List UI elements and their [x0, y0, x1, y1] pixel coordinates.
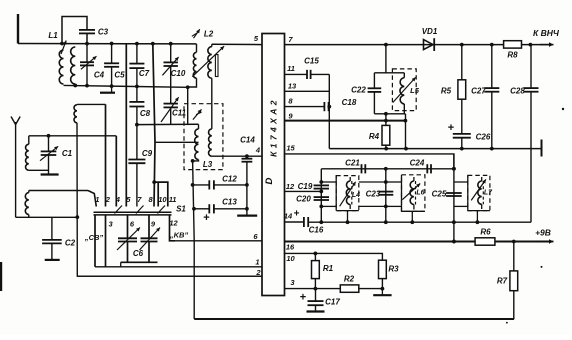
wire pin11 with C15: [285, 73, 308, 75]
svg-text:L3: L3: [203, 160, 213, 169]
svg-text:C5: C5: [114, 71, 125, 80]
magnetic antenna winding W2a (KV): [25, 193, 29, 215]
svg-text:C19: C19: [298, 182, 313, 191]
wire L1 top loop: [62, 17, 87, 44]
capacitor C8: [129, 101, 144, 103]
capacitor C17 electrolytic: [315, 289, 317, 302]
L4 shield dashed box: [336, 176, 359, 211]
wire taps V2 to L6: [386, 181, 402, 183]
node L3a bottom: [191, 159, 195, 163]
wire C21-C24 row: [321, 168, 454, 170]
ground under C14: [237, 215, 257, 217]
svg-text:C1: C1: [62, 149, 73, 158]
node AGC line junctions: [384, 147, 388, 151]
svg-text:R2: R2: [344, 275, 355, 284]
wire pin10: [285, 253, 383, 260]
svg-text:R7: R7: [497, 277, 508, 286]
capacitor C3: [79, 29, 95, 31]
svg-text:C7: C7: [139, 69, 150, 78]
wire pin8 with C18: [285, 106, 325, 108]
node pin7 junctions: [384, 43, 388, 47]
L4 tuning arrow: [340, 182, 356, 207]
node W1-C3 junction: [85, 42, 89, 46]
capacitor C9: [128, 159, 145, 161]
wire pin12: [285, 190, 322, 192]
node V3 junctions: [452, 167, 456, 171]
tank top wire: [374, 72, 404, 74]
wire taps V1 to L4: [321, 181, 336, 183]
inductor L6: [410, 181, 414, 205]
svg-text:C20: C20: [296, 195, 311, 204]
capacitor C19: [314, 184, 329, 186]
svg-text:„CB”: „CB”: [84, 233, 104, 242]
capacitor C1 variable: [48, 136, 50, 152]
wire pin2: [77, 275, 262, 277]
wire winding to C1 and contact4: [29, 135, 117, 137]
svg-text:L1: L1: [48, 31, 58, 40]
wire pin3: [285, 288, 383, 290]
svg-text:C12: C12: [222, 175, 237, 184]
wire pin16 +9V rail heavy: [285, 241, 550, 243]
C6 bottom bar: [121, 261, 158, 263]
op-amp IC D1 K174XA2 body: [262, 34, 285, 296]
svg-text:+: +: [300, 292, 306, 304]
switch S1 bar: [94, 211, 172, 213]
AGC line terminal bar: [541, 140, 543, 157]
capacitor C12: [193, 184, 210, 186]
L7 shield dashed box: [468, 175, 490, 210]
svg-text:„KB”: „KB”: [169, 231, 189, 240]
svg-text:C3: C3: [98, 28, 109, 37]
svg-text:C15: C15: [304, 57, 319, 66]
capacitor C10 variable: [170, 44, 172, 63]
resistor R8: [504, 41, 522, 48]
svg-text:L7: L7: [484, 190, 493, 197]
capacitor C13 electrolytic: [194, 208, 209, 210]
switch pivot line contact1-3 to wire1: [94, 215, 96, 267]
inductor L2 winding b: [211, 44, 213, 46]
L6 shield dashed box: [402, 175, 425, 212]
bottom rail: [194, 318, 514, 320]
svg-text:4: 4: [255, 146, 261, 155]
node C14 top: [245, 154, 249, 158]
antenna input stub: [17, 14, 19, 44]
svg-text:C25: C25: [432, 190, 447, 199]
svg-text:R8: R8: [507, 51, 518, 60]
wire vertical to IC pin2: [77, 123, 262, 276]
svg-text:C16: C16: [309, 226, 324, 235]
capacitor C2: [51, 217, 53, 240]
svg-text:C28: C28: [510, 87, 525, 96]
L2 adjust arrow: [194, 29, 200, 38]
node rail2 junctions: [73, 84, 77, 88]
svg-text:11: 11: [287, 64, 295, 73]
svg-text:16: 16: [286, 243, 295, 252]
capacitor C11 variable: [164, 103, 178, 105]
antenna down lead: [15, 132, 17, 218]
resistor R4: [382, 125, 390, 145]
svg-text:1: 1: [255, 258, 259, 267]
svg-text:12: 12: [169, 219, 178, 228]
resistor R2: [340, 285, 359, 292]
wire L2b down to L3b: [211, 78, 213, 129]
wire L4 bottom stub: [347, 211, 349, 223]
wire pin14 with C16: [285, 221, 304, 223]
svg-text:C26: C26: [476, 133, 491, 142]
switch pivot line 3: [105, 215, 107, 267]
node C1 top: [47, 134, 51, 138]
wire long vertical to bottom rail: [193, 161, 195, 319]
capacitor C18: [323, 102, 325, 111]
inductor L5: [403, 73, 405, 78]
wire coil top to contact2: [77, 103, 106, 105]
wire pin1: [95, 266, 262, 268]
svg-text:+: +: [448, 122, 454, 134]
wire AGC rail2: [64, 85, 188, 87]
svg-text:14: 14: [284, 212, 293, 221]
svg-text:C23: C23: [366, 190, 381, 199]
L6 tuning arrow: [402, 184, 420, 200]
resistor R7: [513, 242, 515, 271]
svg-text:10: 10: [158, 195, 167, 204]
node V2 junctions: [384, 180, 388, 184]
capacitor C16 electrolytic: [303, 217, 305, 227]
svg-text:C14: C14: [240, 136, 255, 145]
wire taps L4 to V2: [359, 181, 386, 183]
node pin9 junctions: [384, 119, 388, 123]
wire AGC line y148: [329, 148, 541, 150]
whip antenna symbol: [15, 122, 17, 132]
svg-text:C2: C2: [65, 239, 76, 248]
svg-text:R4: R4: [369, 132, 380, 141]
capacitor C7: [136, 44, 138, 64]
svg-text:C22: C22: [351, 86, 366, 95]
ground under C17: [307, 310, 325, 312]
svg-text:C10: C10: [171, 69, 186, 78]
svg-text:VD1: VD1: [422, 27, 438, 36]
svg-text:+: +: [294, 209, 300, 220]
svg-text:12: 12: [286, 182, 295, 191]
svg-text:L2: L2: [204, 30, 214, 39]
svg-text:C18: C18: [342, 98, 357, 107]
svg-text:+: +: [203, 212, 209, 224]
wire vertical C15-C18 link: [328, 74, 330, 148]
inductor L2 winding a: [196, 44, 198, 52]
svg-text:L6: L6: [416, 190, 424, 197]
wire pin9 heavy: [285, 120, 406, 122]
capacitor C15: [306, 70, 308, 79]
wire tank to R4: [385, 114, 387, 126]
capacitor C24: [426, 164, 428, 173]
inductor L3 winding a: [198, 124, 200, 129]
switch pivot line 12 to wire6: [170, 215, 176, 241]
wire contact8 column from W1: [153, 44, 155, 207]
ground under C1: [41, 173, 59, 175]
capacitor C14: [242, 158, 253, 160]
node +9V rail junctions: [452, 240, 456, 244]
wire jog to L3 top: [137, 123, 199, 125]
svg-text:C4: C4: [94, 71, 105, 80]
wire contact4 column: [115, 136, 117, 207]
svg-text:1: 1: [95, 195, 99, 204]
svg-text:2: 2: [255, 268, 261, 277]
wire W1 top rail left segment: [18, 43, 197, 45]
wire tap to L3 winding: [155, 141, 199, 143]
scan edge artifact: [0, 262, 2, 291]
svg-text:C24: C24: [410, 159, 425, 168]
node R1 top: [314, 252, 318, 256]
svg-text:L5: L5: [410, 86, 420, 95]
svg-text:К174ХА2: К174ХА2: [269, 97, 279, 157]
wire antenna bottom: [16, 216, 78, 218]
svg-text:4: 4: [115, 195, 121, 204]
svg-text:К ВНЧ: К ВНЧ: [533, 28, 560, 38]
svg-text:D: D: [264, 177, 275, 184]
wire column V3: [453, 154, 455, 242]
capacitor C21: [361, 164, 363, 173]
wire taps V3 to L7: [454, 181, 468, 183]
switch wiper diagonals: [115, 206, 123, 214]
switch pivot line 9 / C6 section b: [148, 215, 150, 238]
inductor L4: [346, 181, 350, 205]
svg-text:C17: C17: [325, 298, 340, 307]
wire contact1 lead: [88, 191, 96, 207]
node W1-contact8 junction: [151, 42, 155, 46]
ground under C2: [45, 259, 60, 261]
wire from rail2 down to L3: [187, 87, 189, 124]
winding W1a bottom wire: [29, 169, 49, 171]
node pin3 junctions: [314, 287, 318, 291]
svg-text:+9В: +9В: [535, 228, 551, 238]
inductor L1 winding b: [71, 47, 76, 84]
inductor L1 winding a: [59, 50, 63, 84]
wire L7 bottom stub: [476, 211, 478, 223]
capacitor C6 section b variable: [141, 237, 158, 239]
wire pin7 output rail: [285, 44, 550, 46]
L3 shield dashed box: [184, 104, 223, 170]
L5 shield dashed box: [392, 69, 416, 111]
node C18 junction: [327, 105, 331, 109]
L2 core bar: [215, 55, 218, 77]
switch pivot line 6 / C6 section a: [127, 215, 129, 238]
svg-text:R3: R3: [388, 265, 399, 274]
svg-text:C6: C6: [133, 249, 144, 258]
capacitor C6 section a variable: [118, 237, 137, 239]
wire bottom row B2: [308, 221, 531, 223]
L7 tuning arrow: [471, 179, 486, 200]
svg-text:R5: R5: [441, 87, 452, 96]
rail2 ground stub: [111, 86, 113, 92]
L5 tuning arrow: [393, 77, 416, 102]
wire winding W2a top to contact1: [29, 190, 88, 192]
wire column contact5 from W1: [125, 44, 127, 207]
svg-text:11: 11: [169, 195, 177, 204]
node W1-C7 junction: [135, 42, 139, 46]
capacitor C27: [491, 45, 493, 89]
svg-text:S1: S1: [176, 205, 186, 214]
inductor L7: [478, 181, 482, 204]
node C8C9-column to L3 jog: [135, 123, 139, 127]
wire column V1: [320, 169, 322, 222]
L1 adjust arrow: [61, 41, 66, 55]
capacitor C4 variable: [86, 44, 88, 63]
resistor R5: [461, 45, 463, 80]
wire tank right down: [405, 114, 407, 149]
node W1-L1 junction: [60, 42, 64, 46]
wire L6 bottom stub: [411, 211, 413, 222]
node W1-C10 junction: [169, 42, 173, 46]
magnetic antenna winding W1a (SV): [26, 144, 29, 170]
diode VD1: [424, 40, 434, 50]
node row junctions: [384, 167, 388, 171]
node V1 junctions: [319, 180, 323, 184]
capacitor C25: [446, 192, 462, 194]
wire pin15: [285, 154, 454, 169]
wire pin4 from L3b: [212, 155, 262, 157]
capacitor C5: [111, 44, 113, 64]
resistor R6: [475, 238, 495, 245]
wire pin13: [285, 90, 330, 92]
wire contact2 column: [105, 104, 107, 206]
inductor L3 winding b: [209, 129, 212, 156]
svg-text:R1: R1: [323, 264, 334, 273]
wire pin7 feed to tank: [385, 45, 387, 73]
wire pin6: [170, 240, 263, 242]
resistor R3: [379, 260, 387, 278]
wire column V2: [385, 169, 387, 222]
svg-text:R6: R6: [480, 228, 491, 237]
capacitor C28: [530, 45, 532, 89]
svg-text:L4: L4: [352, 192, 360, 199]
svg-text:C13: C13: [222, 198, 237, 207]
coupling coil KV: [74, 105, 77, 123]
resistor R1: [314, 253, 316, 260]
svg-text:C27: C27: [471, 87, 486, 96]
capacitor C20: [314, 196, 329, 198]
svg-text:13: 13: [288, 82, 297, 91]
L2 tuning arrow: [192, 46, 224, 76]
node bottom-wire junction: [75, 215, 79, 219]
capacitor C23: [378, 191, 393, 193]
capacitor C22: [373, 73, 375, 89]
ground under R3: [381, 289, 383, 295]
tank bottom wire: [374, 113, 405, 115]
L3 adjust arrow: [193, 109, 202, 119]
svg-text:C8: C8: [140, 109, 151, 118]
svg-text:2: 2: [105, 195, 111, 204]
svg-text:C21: C21: [345, 159, 360, 168]
node W1-C5 junction: [110, 42, 114, 46]
wire W1 top rail right segment to pin 5: [212, 43, 262, 45]
svg-text:10: 10: [286, 254, 295, 263]
svg-text:15: 15: [286, 144, 295, 153]
wire contact 10-11 bridge: [154, 182, 168, 206]
svg-text:C9: C9: [142, 149, 153, 158]
